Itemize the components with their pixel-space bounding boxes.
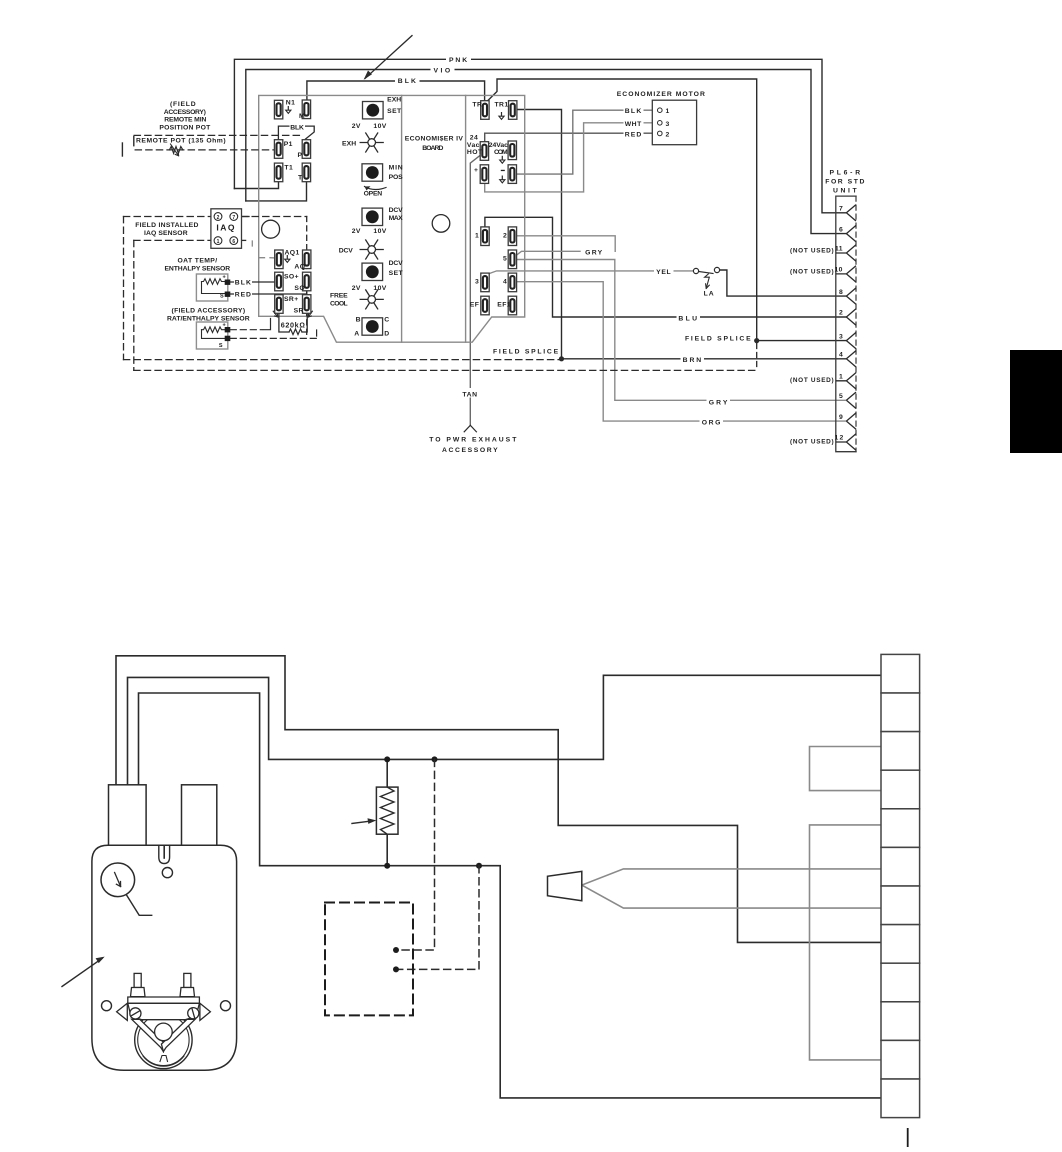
PL6-R connector outline: [836, 196, 856, 452]
svg-text:T1: T1: [284, 165, 293, 172]
label GRY (pin5): [707, 397, 731, 407]
svg-text:EF: EF: [470, 302, 480, 309]
svg-text:MIN: MIN: [389, 165, 404, 172]
pin 8: [846, 288, 856, 304]
svg-text:9: 9: [839, 414, 843, 421]
svg-text:6: 6: [839, 226, 843, 233]
wire ORG: terminal 4 to pin 9: [517, 282, 846, 421]
svg-text:BLK: BLK: [290, 124, 304, 131]
actuator screw below slot: [162, 868, 172, 878]
svg-text:LA: LA: [704, 291, 715, 298]
pump screw left: [130, 1008, 141, 1019]
label BLK motor: [624, 106, 644, 116]
dial pointer line: [127, 895, 152, 915]
svg-text:A: A: [354, 331, 359, 338]
junction field splice 1: [559, 356, 564, 361]
svg-text:7: 7: [839, 206, 843, 213]
svg-text:DCV: DCV: [389, 207, 404, 214]
OPEN arc arrow: [365, 187, 387, 190]
terminal TR: [481, 101, 489, 120]
gray harness line to box7: [582, 885, 881, 908]
pin 7: [846, 205, 856, 221]
pot EXH SET: [363, 102, 384, 119]
svg-text:RED: RED: [235, 292, 252, 299]
svg-text:2V: 2V: [352, 228, 361, 235]
dashed wire from tap2 down into switch box: [398, 866, 479, 970]
dashed IAQ pin1 wire: [134, 239, 211, 241]
svg-text:2V: 2V: [352, 123, 361, 130]
dashed IAQ pin6 to AQ1: [252, 241, 274, 258]
svg-text:1: 1: [666, 108, 670, 115]
junction resistor bottom: [384, 863, 390, 869]
svg-text:GRY: GRY: [585, 249, 603, 256]
strip box 9: [881, 963, 920, 1002]
svg-text:RED: RED: [625, 131, 642, 138]
label TAN: [460, 388, 481, 398]
junction field splice 2: [754, 338, 759, 343]
svg-text:REMOTE POT (135 Ohm): REMOTE POT (135 Ohm): [136, 138, 226, 145]
svg-text:5: 5: [503, 256, 507, 263]
RAT internal S loop: [202, 330, 225, 339]
svg-text:FOR STD: FOR STD: [825, 179, 865, 186]
svg-text:S: S: [219, 343, 223, 349]
wire GRY: terminal 5 to pin 5: [517, 260, 846, 401]
svg-text:(NOT USED): (NOT USED): [790, 439, 834, 446]
pump bolt left: [134, 973, 141, 987]
callout arrow to BLK wire: [364, 36, 412, 80]
OAT sensor box: [196, 274, 227, 301]
switch LA contact circles: [693, 268, 698, 273]
LED DCV: [360, 240, 383, 259]
BLK jumper bracket P1 to P: [278, 126, 314, 139]
RAT sensor box: [196, 322, 227, 349]
wire IAQ pin6 stub: [238, 239, 246, 241]
pin 5: [846, 392, 856, 408]
resistor body: [376, 787, 398, 834]
svg-text:AQ: AQ: [294, 263, 305, 270]
terminal SO+: [275, 272, 283, 291]
dashed RAT S wire: [230, 330, 316, 338]
terminal T1: [274, 163, 282, 182]
svg-text:BOARD: BOARD: [422, 145, 444, 152]
svg-text:1: 1: [839, 374, 843, 381]
pot MIN POS: [362, 164, 383, 181]
harness funnel cone: [548, 871, 582, 900]
svg-text:620kΩ: 620kΩ: [281, 321, 306, 330]
svg-text:+: +: [223, 275, 227, 281]
strip box 6: [881, 847, 920, 886]
svg-text:ORG: ORG: [702, 419, 721, 426]
label BLU: [677, 312, 701, 322]
svg-text:ECONOMIZER MOTOR: ECONOMIZER MOTOR: [617, 91, 706, 98]
svg-text:COM: COM: [494, 149, 508, 156]
svg-text:3: 3: [475, 279, 479, 286]
wire YEL: switch to pin 8: [719, 270, 846, 296]
pump bolt right: [184, 973, 191, 987]
svg-text:FREE: FREE: [330, 293, 348, 300]
svg-text:1: 1: [217, 239, 220, 245]
strip box 2: [881, 693, 920, 732]
IAQ pin 2 circled: [214, 213, 222, 221]
remote pot zigzag: [169, 147, 183, 154]
terminal 24vac com: [508, 141, 516, 160]
terminal TR1: [509, 101, 517, 120]
ground symbol TR1: [499, 112, 504, 119]
svg-text:AQ1: AQ1: [285, 250, 300, 257]
svg-text:2: 2: [503, 232, 507, 239]
svg-text:12: 12: [835, 435, 845, 442]
label YEL: [654, 266, 674, 276]
dashed stub below field splice 2: [756, 344, 758, 371]
terminal SR+: [275, 295, 283, 314]
label VIO: [431, 65, 455, 75]
svg-text:BLU: BLU: [678, 315, 697, 322]
svg-text:S: S: [220, 293, 224, 299]
svg-text:M: M: [299, 113, 305, 120]
svg-text:FIELD SPLICE: FIELD SPLICE: [493, 349, 559, 356]
actuator mounting hole right: [221, 1001, 231, 1011]
terminal N1: [274, 100, 282, 119]
svg-text:FIELD SPLICE: FIELD SPLICE: [685, 336, 751, 343]
620k resistor U wire: [279, 311, 307, 332]
pump bracket plate: [128, 997, 200, 1003]
svg-text:GRY: GRY: [709, 399, 728, 406]
svg-text:5: 5: [839, 393, 843, 400]
pin 9: [846, 413, 856, 429]
pump V arm right: [161, 1019, 195, 1051]
motor pin 1 circle: [658, 108, 663, 113]
actuator keyhole slot: [159, 845, 170, 863]
wire IAQ pin7 stub: [238, 216, 249, 218]
svg-text:MAX: MAX: [389, 215, 404, 222]
svg-text:YEL: YEL: [656, 269, 671, 276]
svg-text:SET: SET: [387, 108, 402, 115]
svg-text:POSITION POT: POSITION POT: [159, 124, 211, 131]
terminal AQ: [303, 250, 311, 269]
terminal 3: [481, 273, 489, 292]
svg-text:EXH: EXH: [387, 97, 402, 104]
strip box 12: [881, 1079, 920, 1118]
wire C: actuator to box 12: [139, 693, 882, 1098]
dashed IAQ enclosure left edge: [123, 217, 125, 360]
svg-text:EXH: EXH: [342, 141, 357, 148]
label arrow to actuator: [62, 959, 102, 987]
resistor zigzag: [381, 787, 395, 834]
svg-text:OAT TEMP/: OAT TEMP/: [178, 257, 218, 264]
pin 2: [846, 309, 856, 325]
svg-text:11: 11: [835, 246, 843, 253]
ground symbol COM: [500, 156, 505, 163]
svg-text:DCV: DCV: [339, 247, 354, 254]
svg-text:C: C: [384, 317, 389, 324]
resistor leads: [386, 759, 388, 865]
svg-text:4: 4: [503, 279, 507, 286]
terminal 5: [508, 250, 516, 269]
LED FREE COOL: [360, 290, 383, 309]
RAT zigzag resistor: [202, 327, 227, 333]
label WHT motor: [624, 118, 644, 128]
dashed remote pot wire upper to P: [134, 134, 302, 136]
OAT terminal squares: [225, 280, 231, 285]
pin 1: [836, 373, 856, 389]
label ORG: [700, 417, 724, 427]
actuator body: [92, 845, 237, 1070]
terminal 24vac hot: [480, 142, 488, 161]
dashed wire from tap1 down into switch box: [398, 759, 435, 950]
wire TAN: HOT down to exhaust accessory: [470, 156, 480, 426]
pump hub circle: [155, 1023, 173, 1041]
label RED motor: [624, 129, 644, 139]
svg-text:TO PWR EXHAUST: TO PWR EXHAUST: [429, 437, 517, 444]
page tab black rectangle: [1010, 350, 1062, 453]
svg-text:P1: P1: [284, 141, 293, 148]
terminal M: [302, 100, 310, 119]
wire A: actuator to box 8: [116, 656, 881, 943]
svg-text:SR+: SR+: [284, 296, 299, 303]
svg-text:10V: 10V: [373, 123, 386, 130]
label RED OAT: [234, 289, 252, 299]
svg-text:BLK: BLK: [235, 280, 252, 287]
label BLK (P1-P jumper): [290, 123, 306, 132]
wire PNK stub to T1 bottom: [234, 181, 278, 189]
pot DCV SET: [362, 263, 383, 280]
switch LA freeze symbol: [705, 274, 710, 289]
gray harness line to box6: [582, 869, 881, 885]
wire BLK: minus to motor 1: [517, 110, 658, 174]
actuator right terminal stub: [182, 785, 217, 846]
wire VIO stub to T bottom: [246, 181, 307, 201]
svg-text:TR1: TR1: [495, 102, 509, 109]
svg-text:SET: SET: [389, 270, 404, 277]
wire WHT: plus to motor 3: [485, 123, 658, 192]
terminal EF: [481, 296, 489, 315]
strip box 8: [881, 925, 920, 964]
svg-text:(NOT USED): (NOT USED): [790, 248, 834, 255]
junction dashed tap 2: [476, 863, 482, 869]
svg-text:D: D: [384, 331, 389, 338]
svg-text:DCV: DCV: [389, 260, 404, 267]
pump inner detail arcs: [143, 1056, 184, 1066]
svg-text:B: B: [356, 317, 361, 324]
terminal AQ1: [275, 250, 283, 269]
switch box dot 2: [393, 966, 399, 972]
pot A B C D: [362, 318, 383, 335]
terminal P: [302, 140, 310, 159]
junction dashed tap 1: [432, 756, 438, 762]
ground symbol AQ1: [285, 255, 290, 262]
terminal 1: [481, 227, 489, 246]
svg-text:Vac: Vac: [467, 142, 480, 149]
wire BLK OAT to SO+: [230, 281, 275, 283]
wire YEL: terminal 3 to switch: [488, 271, 694, 274]
svg-text:6: 6: [232, 239, 235, 245]
svg-text:+: +: [223, 323, 227, 329]
terminal 4: [508, 273, 516, 292]
pin 3: [846, 332, 856, 348]
wire VIO: T to PL6-R pin 6: [246, 70, 847, 234]
svg-text:(FIELD: (FIELD: [170, 101, 196, 108]
economizer motor box: [652, 100, 696, 145]
gray jumper box3 to box4: [810, 747, 882, 791]
svg-text:BLK: BLK: [625, 108, 642, 115]
arrow SR pigtail: [308, 311, 312, 317]
svg-text:1: 1: [475, 232, 479, 239]
pump side spike left: [117, 1003, 128, 1020]
svg-text:COOL: COOL: [330, 300, 348, 307]
RAT terminal squares: [225, 327, 231, 332]
svg-text:POS: POS: [389, 174, 404, 181]
wire PNK: T1 to PL6-R pin 7: [234, 59, 846, 213]
dashed IAQ enclosure top edge: [124, 216, 307, 218]
strip box 3: [881, 732, 920, 771]
pump side spike right: [200, 1003, 211, 1020]
svg-text:3: 3: [666, 121, 670, 128]
ground symbol N1: [286, 106, 291, 113]
wire TR to field splice / pin 3: [487, 79, 847, 341]
dial arrow: [115, 873, 121, 887]
pump V arm left: [132, 1019, 166, 1051]
svg-text:ACCESSORY): ACCESSORY): [164, 109, 207, 116]
switch box dot 1: [393, 947, 399, 953]
strip box 7: [881, 886, 920, 925]
pin 4: [846, 351, 856, 367]
svg-text:VIO: VIO: [434, 68, 451, 75]
terminal plus: [480, 165, 488, 184]
label BLK OAT: [234, 277, 252, 287]
svg-text:10V: 10V: [373, 285, 386, 292]
svg-text:4: 4: [839, 352, 843, 359]
svg-text:ENTHALPY SENSOR: ENTHALPY SENSOR: [165, 266, 231, 273]
svg-text:3: 3: [839, 333, 843, 340]
terminal minus: [508, 165, 516, 184]
IAQ pin 6 circled: [230, 237, 238, 245]
dashed inner enclosure bottom edge: [134, 369, 757, 371]
svg-text:WHT: WHT: [625, 121, 642, 128]
arrow SR+ pigtail: [273, 311, 278, 317]
wire B: actuator to box 1: [128, 675, 882, 785]
terminal strip boxes: [881, 654, 920, 1117]
ground symbol minus: [500, 176, 505, 183]
strip box 4: [881, 770, 920, 809]
svg-text:OPEN: OPEN: [364, 191, 383, 198]
board divider left/middle: [401, 95, 403, 342]
label GRY (board): [583, 247, 605, 257]
page bottom tick: [907, 1128, 909, 1147]
dashed switch box: [325, 903, 413, 1016]
svg-text:BLK: BLK: [398, 78, 417, 85]
svg-text:PL6-R: PL6-R: [830, 170, 861, 177]
pin 12: [836, 434, 856, 450]
svg-text:N1: N1: [286, 100, 296, 107]
wire TR1 to field splice / BRN / pin 4: [517, 110, 846, 359]
wire GRY jog into terminal 5 top: [516, 251, 580, 255]
wire BLU: terminal 1 to pin 2: [485, 217, 847, 317]
board circle left: [262, 220, 280, 238]
svg-text:+: +: [474, 167, 478, 174]
svg-text:HOT: HOT: [467, 149, 483, 156]
pot DCV MAX: [362, 208, 383, 225]
svg-text:REMOTE MIN: REMOTE MIN: [164, 117, 207, 124]
terminal EF1: [508, 296, 516, 315]
pump screw right: [188, 1008, 199, 1019]
svg-text:IAQ: IAQ: [216, 223, 236, 233]
terminal SO: [303, 272, 311, 291]
svg-text:SO+: SO+: [284, 273, 299, 280]
pin 11: [836, 245, 856, 261]
IAQ sensor box: [211, 209, 242, 249]
strip box 10: [881, 1002, 920, 1041]
svg-text:2V: 2V: [352, 285, 361, 292]
strip box 1: [881, 654, 920, 693]
terminal 2: [508, 227, 516, 246]
strip box 11: [881, 1040, 920, 1079]
remote pot wiper arrow: [171, 144, 179, 156]
svg-text:BRN: BRN: [683, 357, 702, 364]
board outline: [259, 95, 525, 342]
wire RED OAT to SO: [230, 291, 306, 294]
svg-text:8: 8: [839, 289, 843, 296]
IAQ pin 1 circled: [214, 237, 222, 245]
label BRN: [681, 354, 705, 364]
svg-text:(FIELD ACCESSORY): (FIELD ACCESSORY): [172, 308, 246, 315]
svg-text:IAQ SENSOR: IAQ SENSOR: [144, 230, 188, 237]
svg-text:P: P: [298, 152, 303, 159]
svg-text:24Vac: 24Vac: [489, 142, 509, 149]
svg-text:FIELD INSTALLED: FIELD INSTALLED: [135, 222, 199, 229]
svg-text:ACCESSORY: ACCESSORY: [442, 447, 498, 454]
IAQ pin 7 circled: [230, 213, 238, 221]
dashed remote pot wire lower to P1: [135, 149, 274, 151]
svg-text:SR: SR: [294, 308, 304, 315]
label PNK: [446, 54, 471, 64]
dashed IAQ enclosure bottom edge to field splice: [124, 359, 562, 361]
dashed inner enclosure left edge: [133, 240, 135, 370]
actuator mounting hole left: [102, 1001, 112, 1011]
gray jumper box5 to box11: [810, 825, 882, 1060]
arrow to resistor: [352, 821, 373, 824]
actuator dial: [101, 863, 135, 897]
svg-text:7: 7: [232, 215, 235, 221]
svg-text:2: 2: [217, 215, 220, 221]
pin 6: [846, 225, 856, 241]
strip box 5: [881, 809, 920, 848]
svg-text:10: 10: [835, 267, 843, 274]
pump big wheel: [135, 1011, 192, 1068]
svg-text:ECONOMI$ER IV: ECONOMI$ER IV: [405, 136, 464, 143]
terminal P1: [274, 140, 282, 159]
svg-text:UNIT: UNIT: [833, 188, 857, 195]
svg-text:TR: TR: [472, 102, 482, 109]
svg-text:PNK: PNK: [449, 57, 468, 64]
dashed RAT+ wire: [230, 329, 262, 331]
svg-text:SO: SO: [294, 285, 305, 292]
wire RED: HOT to motor 2: [485, 133, 658, 142]
motor pin 3 circle: [658, 121, 663, 126]
board divider middle/right: [465, 95, 467, 342]
terminal SR: [303, 295, 311, 314]
OAT zigzag resistor: [202, 279, 227, 285]
OAT internal S loop: [202, 282, 227, 294]
svg-text:TAN: TAN: [462, 391, 477, 398]
board circle right: [432, 215, 450, 233]
svg-text:T: T: [298, 175, 303, 182]
arrow end of TAN wire: [464, 425, 476, 432]
wire GRY: terminal 2 to terminal 5: [517, 236, 615, 252]
PL6-R pins: [836, 205, 856, 451]
remote pot terminal bars: [133, 136, 135, 145]
svg-text:2: 2: [666, 131, 670, 138]
620k zigzag: [289, 329, 302, 335]
